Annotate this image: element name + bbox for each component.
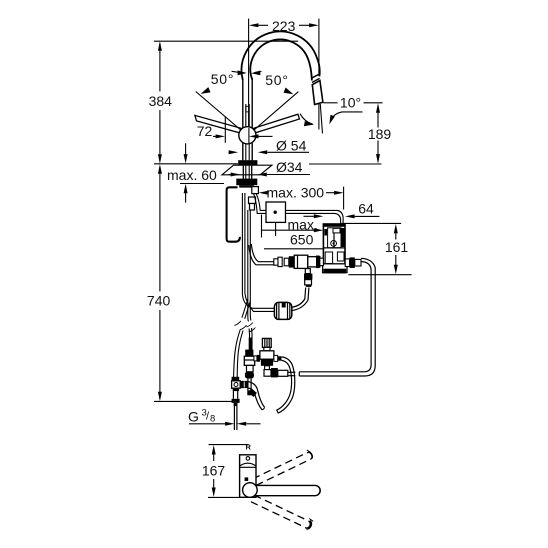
check valve body xyxy=(244,356,254,365)
dimension max650 ext line xyxy=(261,215,263,238)
remote stem line xyxy=(275,222,277,236)
counter deck line left xyxy=(154,163,238,165)
spray head xyxy=(312,81,323,105)
svg-text:8: 8 xyxy=(210,414,215,425)
svg-text:72: 72 xyxy=(197,123,213,139)
dimension 161 line + arrows xyxy=(395,234,397,240)
hose from tee curving down right xyxy=(248,382,265,408)
pivot ball xyxy=(239,127,256,144)
spray head axis line (10 deg) xyxy=(320,104,322,134)
vertical fitting under chain xyxy=(305,269,310,274)
hose fittings under shank xyxy=(249,197,256,204)
svg-text:Ø 54: Ø 54 xyxy=(276,138,307,154)
50deg arc arrows at column top xyxy=(232,71,239,72)
weight hose up to chain fitting xyxy=(292,288,306,308)
tee assembly at supply xyxy=(232,377,240,381)
dimension Ø34 leader + arrows xyxy=(229,174,231,176)
svg-text:max. 300: max. 300 xyxy=(267,185,325,201)
hose pair B down to check valve xyxy=(247,210,250,322)
backflow preventer body xyxy=(264,347,270,350)
control box lower inner parts xyxy=(325,252,332,264)
spout outer arc xyxy=(242,31,320,80)
svg-text:Ø34: Ø34 xyxy=(276,159,303,175)
control box body xyxy=(323,224,345,273)
backflow preventer bonnet xyxy=(262,338,271,347)
dimension 384 line + arrows xyxy=(159,43,161,92)
svg-text:740: 740 xyxy=(147,293,171,309)
backflow preventer upper right port xyxy=(274,355,278,361)
top view faucet body xyxy=(240,455,256,498)
dimension 64 arrows xyxy=(304,215,315,217)
dimension 223 ext line left xyxy=(248,19,250,128)
dimension Ø54 leader + arrows xyxy=(229,151,231,153)
dimension max300 arrows xyxy=(259,191,269,195)
svg-text:max. 60: max. 60 xyxy=(167,167,217,183)
pull-out hose guide hook (thick) xyxy=(227,187,240,241)
svg-text:650: 650 xyxy=(290,232,314,248)
svg-text:64: 64 xyxy=(358,201,374,217)
svg-text:161: 161 xyxy=(385,239,409,255)
tee side outlet hex xyxy=(240,381,248,388)
escutcheon parallelogram xyxy=(222,165,272,175)
check valve bottom nut xyxy=(245,372,254,379)
dimension max60 bottom arrow xyxy=(185,193,187,203)
10deg leader line xyxy=(324,102,338,104)
shank outlet fitting xyxy=(252,187,259,194)
50deg right angle line xyxy=(254,92,298,130)
dimension 189 line + arrows xyxy=(377,106,379,128)
inlet connector chain left of box xyxy=(274,259,278,265)
hose break marks xyxy=(234,321,241,326)
handle stub right xyxy=(254,114,300,133)
hose weight xyxy=(274,302,291,319)
svg-text:167: 167 xyxy=(202,463,226,479)
threaded shank below deck xyxy=(242,166,244,179)
base flange (dark) xyxy=(238,160,257,165)
handle stub left xyxy=(195,115,241,133)
backflow preventer bottom outlet xyxy=(265,366,270,370)
dimension 740 bottom reference line xyxy=(154,400,232,402)
spout inner arc xyxy=(250,40,312,81)
remote control square xyxy=(266,202,286,222)
G3/8 supply pipe xyxy=(233,403,235,430)
spout joint band xyxy=(311,74,319,78)
svg-text:G: G xyxy=(188,409,199,425)
svg-text:189: 189 xyxy=(368,126,392,142)
lever handle dashed up position xyxy=(253,453,311,486)
dimension 72 ext line (handle tip) xyxy=(224,117,226,143)
dimension max300 ext line xyxy=(343,187,345,210)
control box right dark detail xyxy=(341,228,344,247)
dimension 740 line + arrows xyxy=(159,167,161,292)
50deg left angle line xyxy=(196,92,241,131)
lower port horizontal fitting xyxy=(264,370,271,377)
dimension 72 arrows xyxy=(213,135,216,137)
dimension 223 ext line right (drops to spray head level) xyxy=(318,19,320,76)
control box inner compartment xyxy=(328,228,341,248)
supply hose to tee (with break) xyxy=(242,299,248,318)
dimension 161 bottom ref line xyxy=(348,274,411,276)
outlet connector chain right of box xyxy=(345,259,349,267)
lever handle solid xyxy=(253,485,320,495)
counter underside line xyxy=(180,183,224,185)
long outlet hose loop xyxy=(299,258,375,376)
control box bottom flange xyxy=(323,264,347,273)
dimension max60 top arrow xyxy=(185,143,187,154)
faucet outlet hose curving to chain xyxy=(251,244,273,262)
control box mid line xyxy=(324,247,345,249)
dimension 167 line + arrows xyxy=(213,454,215,461)
top view: dimension 167 bottom tick xyxy=(208,496,241,498)
dashed lever up end cap xyxy=(307,452,312,459)
check valve (left) top nut xyxy=(245,350,253,357)
head swing arc right xyxy=(331,112,363,121)
dimension 189 bottom ref line xyxy=(309,163,382,165)
dimension 223 line + arrows xyxy=(258,24,268,26)
mixed water hose to control box xyxy=(256,194,343,224)
top view: dimension 167 top tick xyxy=(209,444,249,446)
upper port hose looping down xyxy=(278,357,295,413)
control box indicator circle xyxy=(331,241,337,247)
dimension G3/8 arrows xyxy=(189,423,225,425)
mounting nut (dark) xyxy=(236,179,257,186)
long reference line under 650 xyxy=(264,248,324,250)
svg-text:R: R xyxy=(246,443,252,452)
dimension 384 top reference line xyxy=(154,40,298,42)
svg-text:50°: 50° xyxy=(265,72,289,88)
svg-text:50°: 50° xyxy=(211,71,235,87)
dark band on bend xyxy=(248,388,257,397)
column logo mark xyxy=(246,106,249,112)
lever handle dashed down position xyxy=(251,495,309,527)
dashed lever down end cap xyxy=(305,521,310,528)
head swing arc left xyxy=(300,114,313,125)
svg-text:max.: max. xyxy=(288,217,318,233)
link between valves xyxy=(254,356,257,361)
dimension max650 leader arrow xyxy=(262,229,315,231)
column below ball xyxy=(242,143,244,160)
svg-text:384: 384 xyxy=(149,93,173,109)
svg-text:10°: 10° xyxy=(340,95,361,111)
dimension 161 top ref line xyxy=(341,222,401,224)
faucet column xyxy=(242,80,244,128)
hose pair A down to weight xyxy=(242,193,274,308)
